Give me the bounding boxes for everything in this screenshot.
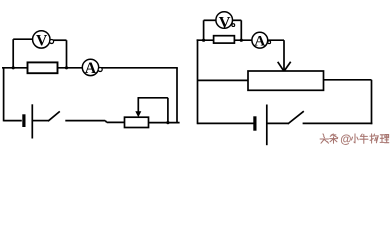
glyph 物: [370, 134, 379, 143]
wire: left vertical side: [197, 39, 199, 124]
resistor R3 body: [214, 36, 235, 43]
svg-text:@: @: [340, 134, 351, 146]
glyph 牛: [360, 134, 368, 143]
wire: left vertical side: [3, 67, 5, 121]
svg-text:V: V: [219, 13, 231, 31]
wire: voltmeter loop left vertical: [12, 39, 14, 68]
junction dot right voltmeter tap: [65, 66, 68, 69]
wire: battery to switch: [268, 122, 289, 124]
wire: voltmeter loop right vertical: [240, 20, 242, 40]
battery B1 long thin plate: [31, 104, 33, 138]
battery B2 long thin plate: [266, 105, 268, 146]
wire: bottom-left to battery: [4, 120, 22, 122]
voltmeter V1 body: [33, 31, 50, 48]
wire: voltmeter loop top-left: [204, 19, 217, 21]
wire: slider branch vertical down: [167, 98, 169, 123]
battery B2 short thick plate: [253, 116, 256, 130]
svg-text:A: A: [254, 34, 265, 50]
wire: switch right terminal: [65, 120, 105, 122]
rheostat R2 body: [125, 117, 149, 127]
junction dot right voltmeter tap: [240, 39, 243, 42]
glyph 头: [320, 134, 328, 143]
wire: top main wire of left circuit: [2, 67, 178, 69]
switch S1 blade: [48, 111, 60, 121]
svg-text:V: V: [36, 33, 48, 50]
rheostat R4 slider arrowhead right prong: [284, 62, 291, 72]
wire: voltmeter loop right vertical: [66, 40, 68, 68]
glyph 小: [352, 134, 359, 143]
watermark 头条@小牛物理: [320, 134, 389, 146]
wire: rheostat right terminal to right corner: [149, 122, 180, 124]
wire: to rheostat left terminal: [107, 121, 125, 123]
wire: voltmeter loop top-left: [13, 38, 33, 40]
wire: top main wire of right circuit: [197, 39, 284, 41]
ammeter A2 terminal knob: [268, 41, 271, 44]
junction dot left voltmeter tap: [12, 66, 15, 69]
rheostat R4 slider arrowhead left prong: [278, 62, 284, 72]
wire: voltmeter loop left vertical: [203, 20, 205, 40]
wire: ammeter down-lead to slider: [283, 40, 285, 71]
wire: jog down: [105, 121, 107, 123]
rheostat R2 slider stem: [137, 98, 139, 113]
glyph 理: [380, 135, 389, 143]
wire: bottom right to switch: [303, 122, 373, 124]
ammeter A1 body: [82, 59, 98, 75]
switch S2 blade: [288, 111, 304, 124]
wire: rheostat right terminal: [324, 79, 372, 81]
wire: voltmeter loop top-right: [232, 19, 241, 21]
ammeter A1 terminal knob: [98, 68, 102, 72]
wire: slider branch horizontal: [138, 97, 168, 99]
wire: battery to switch: [33, 120, 48, 122]
rheostat R2 slider arrowhead: [135, 111, 141, 117]
junction dot left voltmeter tap: [202, 39, 205, 42]
wire: voltmeter loop top-right: [52, 39, 67, 41]
wire: bottom left from battery: [198, 122, 254, 124]
voltmeter V2 body: [216, 12, 233, 29]
ammeter A2 body: [252, 32, 268, 48]
voltmeter V2 terminal knob: [232, 24, 235, 27]
glyph 条: [330, 134, 338, 143]
rheostat R4 body: [248, 71, 324, 90]
wire: rheostat left terminal: [198, 79, 249, 81]
wire: right vertical side: [176, 68, 178, 124]
svg-text:A: A: [85, 60, 97, 77]
resistor R1 body: [28, 62, 58, 73]
junction dot slider/right-terminal node: [166, 121, 169, 124]
battery B1 short thick plate: [22, 114, 25, 127]
wire: right vertical side: [371, 80, 373, 124]
voltmeter V1 terminal knob: [50, 40, 54, 44]
